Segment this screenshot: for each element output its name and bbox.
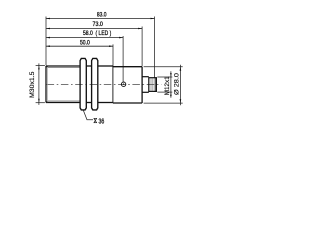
threaded barrel M30 <box>46 65 80 67</box>
sensor face <box>45 66 47 103</box>
svg-text:73.0: 73.0 <box>93 21 104 28</box>
svg-text:83.0: 83.0 <box>97 12 107 19</box>
dim 73.0 <box>46 28 142 30</box>
nut 1 <box>80 58 86 110</box>
dim M12x1 <box>157 76 172 78</box>
svg-text:Ø 28.0: Ø 28.0 <box>173 72 180 95</box>
LED indicator <box>121 82 125 86</box>
barrel between nuts <box>86 65 91 67</box>
connector thread M12 <box>149 78 157 92</box>
thread minor lines <box>48 67 81 69</box>
connector neck <box>142 76 149 78</box>
collar <box>98 65 113 67</box>
dim M30x1.5 <box>36 64 45 66</box>
svg-text:M12x1: M12x1 <box>164 76 171 96</box>
extension line LED <box>122 36 124 82</box>
dim 58.0 (LED) <box>46 37 123 39</box>
leader SW36 <box>83 110 93 120</box>
dim 50.0 <box>46 45 113 47</box>
svg-text:M30x1.5: M30x1.5 <box>29 71 36 98</box>
extension line right 73 <box>141 27 143 67</box>
extension line left (face) <box>45 17 47 66</box>
svg-text:50.0: 50.0 <box>80 40 90 47</box>
joint line <box>112 66 114 103</box>
centerline <box>47 83 162 85</box>
dim 83.0 <box>46 18 155 20</box>
svg-text:36: 36 <box>99 118 105 125</box>
extension line 50 <box>112 44 114 66</box>
nut 2 <box>92 58 98 110</box>
housing <box>113 66 142 68</box>
svg-text:58.0 ( LED ): 58.0 ( LED ) <box>83 30 111 37</box>
extension line right 83 <box>154 17 156 78</box>
dim dia 28.0 <box>144 66 183 68</box>
